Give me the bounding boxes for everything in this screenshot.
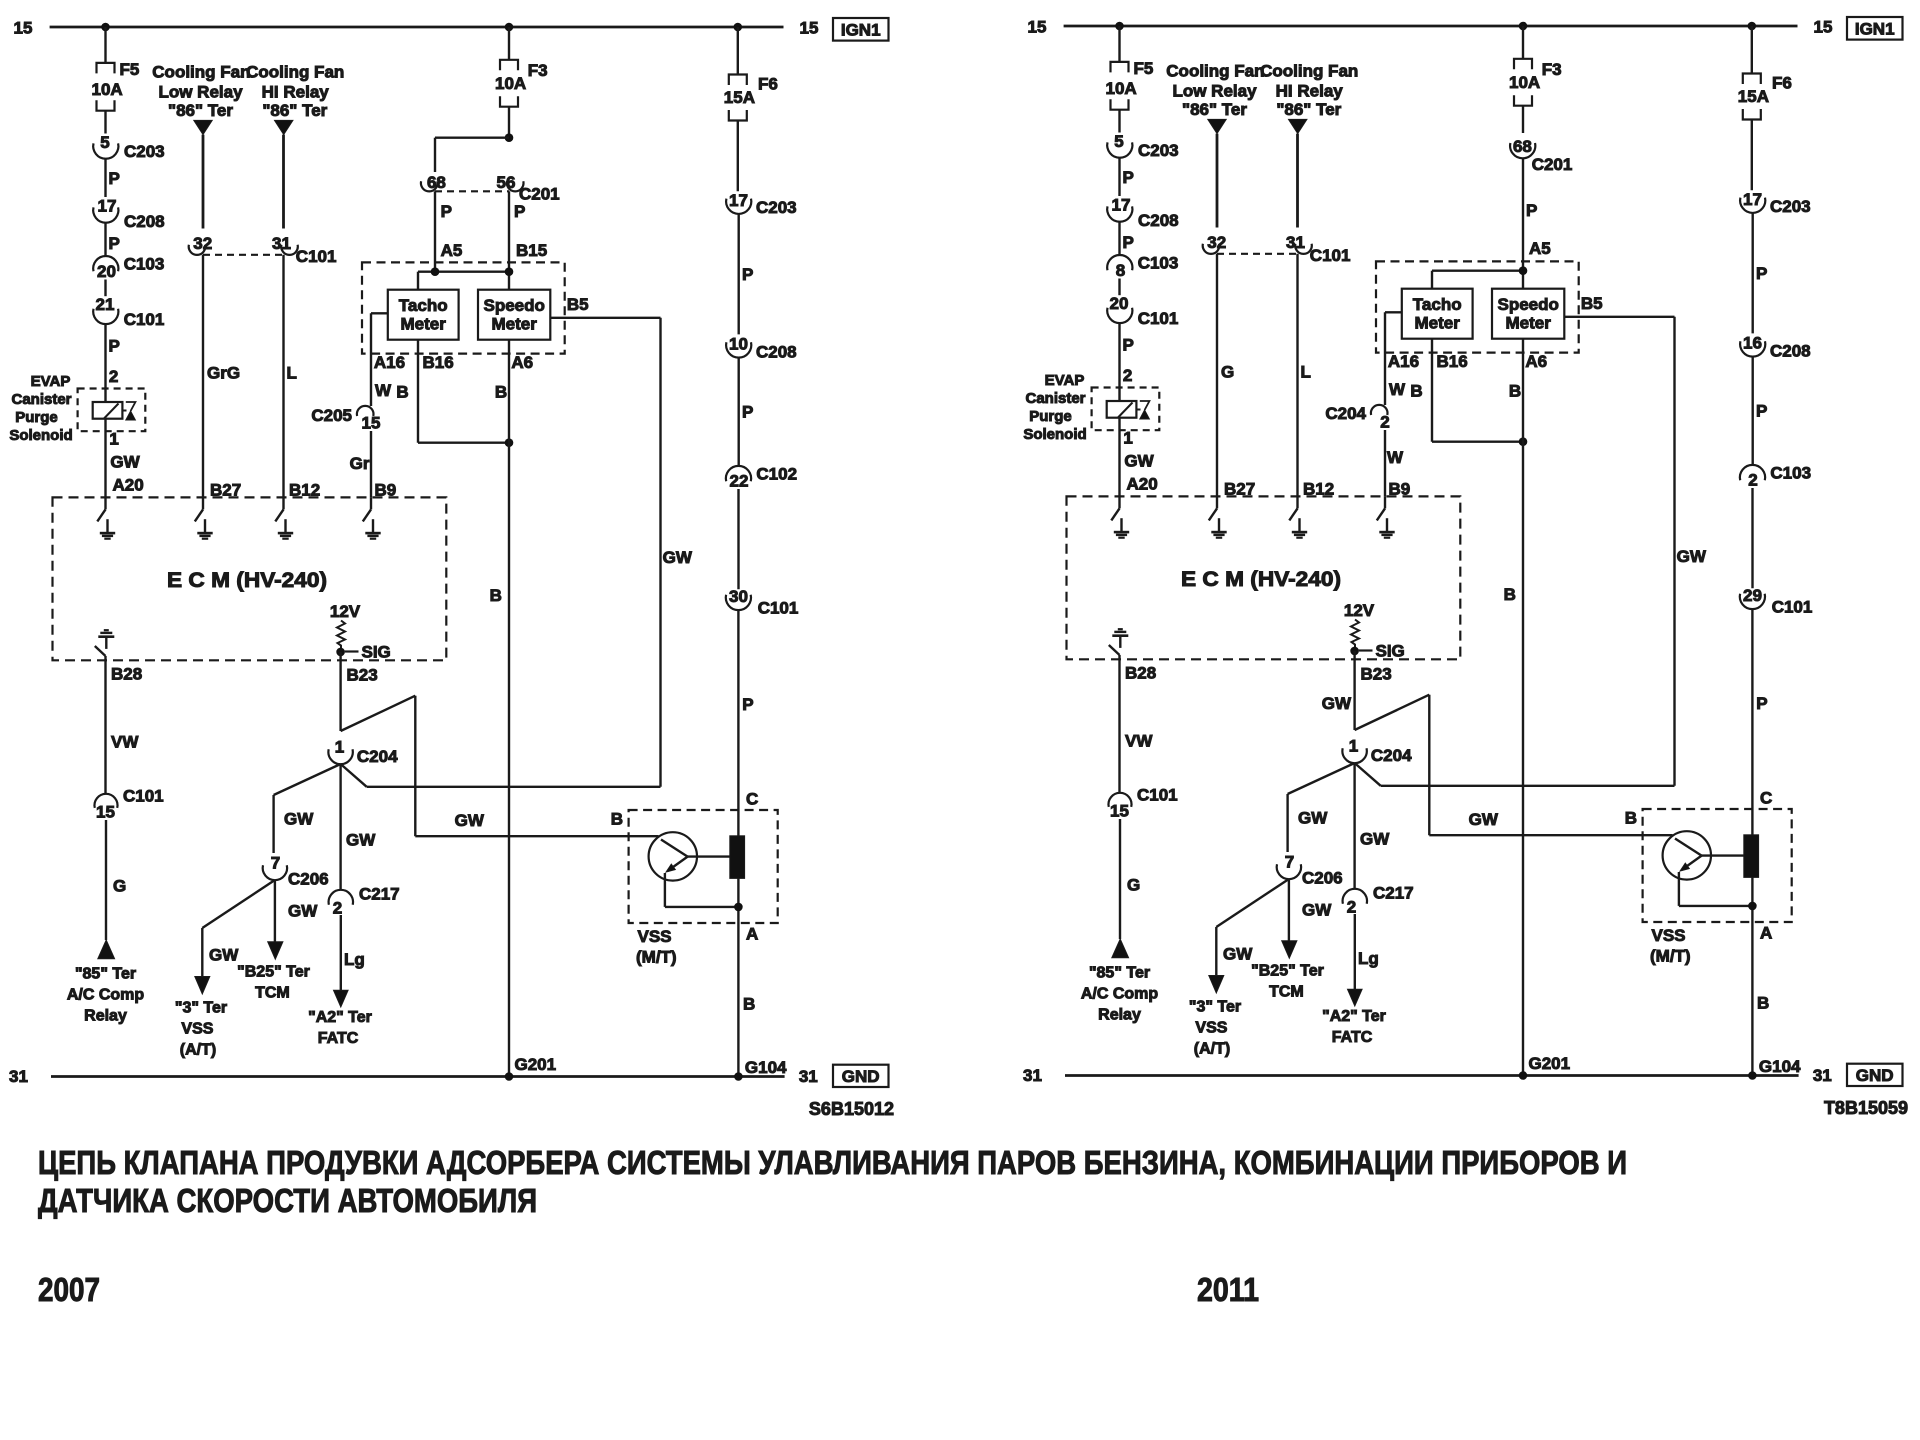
svg-text:31: 31 (9, 1067, 28, 1086)
svg-text:C101: C101 (124, 310, 165, 329)
svg-text:B: B (490, 586, 502, 605)
svg-text:F5: F5 (1134, 59, 1154, 78)
connector C203 pin 5 (2007) (93, 143, 118, 158)
wire tachometer A16 (2011) (1385, 311, 1402, 313)
ECM internal switch to B28 (2011) (1119, 636, 1121, 648)
svg-text:"B25" Ter: "B25" Ter (237, 964, 310, 981)
svg-text:2: 2 (1123, 366, 1132, 385)
svg-text:G: G (1221, 363, 1234, 382)
off-page arrow to FATC A2 (2007) (334, 990, 349, 1007)
off-page arrow to A/C compressor relay (2007) (98, 940, 115, 959)
wire Lg to FATC (2011) (1354, 914, 1356, 989)
wire bus to fuse F5 (2007) (104, 27, 106, 63)
svg-text:B: B (495, 383, 507, 402)
connector C103 pin 20 (2007) (93, 256, 118, 271)
svg-text:1: 1 (1349, 737, 1358, 756)
svg-text:B28: B28 (1125, 664, 1156, 683)
svg-text:B: B (1509, 382, 1521, 401)
wire B, tachometer B16 (2007) (417, 340, 419, 443)
svg-text:GW: GW (284, 810, 314, 829)
svg-text:2: 2 (1347, 898, 1356, 917)
svg-text:C101: C101 (758, 599, 799, 618)
wire bus to fuse F3 (2007) (508, 27, 510, 60)
wire P, C201-56 to speedometer B15 (2007) (508, 191, 510, 271)
left diagram (2007) (9, 18, 894, 1119)
svg-text:B: B (1757, 994, 1769, 1013)
svg-text:17: 17 (1743, 190, 1762, 209)
svg-text:C217: C217 (1373, 884, 1414, 903)
svg-text:B15: B15 (516, 241, 547, 260)
fuse F5 10A (2011) (1111, 62, 1129, 73)
EVAP canister purge solenoid (2007) (78, 389, 146, 432)
svg-text:"85" Ter: "85" Ter (1089, 965, 1150, 982)
wire speedometer B5 output (2007) (550, 317, 660, 319)
svg-text:Relay: Relay (1098, 1007, 1141, 1024)
svg-text:P: P (1526, 201, 1537, 220)
fuse F6 15A (2011) (1743, 74, 1761, 85)
svg-text:G201: G201 (1529, 1054, 1571, 1073)
svg-text:VW: VW (1125, 732, 1153, 751)
svg-text:15: 15 (96, 803, 115, 822)
svg-text:15: 15 (14, 19, 33, 38)
svg-text:EVAP: EVAP (31, 373, 71, 390)
svg-text:(A/T): (A/T) (1194, 1041, 1230, 1058)
instrument cluster box (2011) (1376, 261, 1579, 352)
wire F6 to C203 (2007) (737, 121, 739, 192)
svg-text:"86" Ter: "86" Ter (1276, 100, 1341, 119)
wire B5 to C204 pin 1 (2011) (1381, 785, 1675, 787)
svg-text:C208: C208 (1138, 211, 1179, 230)
ECM ground pin A20 (2011) (1118, 496, 1120, 508)
connector C208 pin 17 (2011) (1107, 206, 1132, 221)
off-page arrow to cooling fan HI relay (2011) (1289, 119, 1307, 133)
wire GW to VSS (A/T) (2007) (202, 880, 275, 928)
ECM ground pin B12 (2007) (282, 497, 284, 509)
svg-text:Meter: Meter (1506, 314, 1552, 333)
off-page arrow to A/C compressor relay (2011) (1112, 939, 1129, 958)
junction bus/F5 (2007) (101, 23, 110, 32)
speedometer (2007) (478, 290, 550, 340)
wire F6 to C203 (2011) (1751, 120, 1753, 191)
junction bus/F5 (2011) (1115, 22, 1124, 31)
svg-text:GND: GND (1856, 1066, 1894, 1085)
svg-text:12V: 12V (330, 602, 361, 621)
wire P, C203 to C208 (2011) (1118, 158, 1120, 196)
svg-text:2: 2 (333, 899, 342, 918)
svg-text:P: P (1123, 168, 1134, 187)
svg-text:"86" Ter: "86" Ter (262, 101, 327, 120)
svg-text:C203: C203 (756, 198, 797, 217)
tachometer (2011) (1402, 289, 1473, 339)
svg-text:Relay: Relay (84, 1008, 127, 1025)
wire fan HI relay to C101-31 (2007) (282, 135, 285, 229)
svg-text:B: B (396, 383, 408, 402)
svg-text:C103: C103 (1138, 254, 1179, 273)
wire W, C204 to ECM B9 (2011) (1384, 430, 1386, 496)
svg-text:32: 32 (1207, 233, 1226, 252)
svg-text:C101: C101 (1138, 309, 1179, 328)
svg-text:"A2" Ter: "A2" Ter (1322, 1008, 1386, 1025)
svg-text:GW: GW (346, 831, 376, 850)
svg-text:Low Relay: Low Relay (1172, 82, 1257, 101)
connector C203 pin 5 (2011) (1107, 142, 1132, 157)
wire tachometer A16 (2007) (371, 312, 388, 314)
svg-text:(M/T): (M/T) (1650, 947, 1691, 966)
wire ignition bus 15 (2007) (50, 26, 784, 29)
wire P, C101 to solenoid pin 2 (2007) (104, 324, 106, 402)
svg-text:B27: B27 (1224, 480, 1255, 499)
wire C103 to C101 (2007) (104, 280, 106, 297)
junction cluster feed speedo (2011) (1519, 266, 1528, 275)
svg-text:GW: GW (1677, 547, 1707, 566)
wire GW, solenoid pin 1 to ECM A20 (2011) (1118, 418, 1120, 497)
junction F3 split (2007) (505, 133, 514, 142)
speedometer (2011) (1492, 289, 1564, 339)
wire bus to fuse F6 (2011) (1751, 26, 1753, 74)
svg-text:C101: C101 (123, 787, 164, 806)
wire ECM B23 signal (2011) (1353, 651, 1355, 730)
fuse F6 15A (2007) (729, 75, 747, 86)
svg-text:P: P (441, 202, 452, 221)
off-page arrow to cooling fan HI relay (2007) (275, 120, 293, 134)
svg-text:T8B15059: T8B15059 (1824, 1098, 1908, 1118)
wire L, C101-31 to ECM B12 (2011) (1296, 254, 1298, 497)
wire G, C101-32 to ECM B27 (2011) (1216, 254, 1218, 497)
svg-text:"86" Ter: "86" Ter (1182, 100, 1247, 119)
svg-text:Cooling Fan: Cooling Fan (152, 63, 250, 82)
ECM ground pin B9 (2007) (370, 497, 372, 509)
solenoid valve symbol (2007) (126, 402, 136, 411)
svg-text:10A: 10A (495, 74, 526, 93)
svg-text:P: P (742, 265, 753, 284)
svg-text:68: 68 (1513, 137, 1532, 156)
wire fan low relay to C101-32 (2011) (1216, 134, 1219, 228)
wire GW, solenoid pin 1 to ECM A20 (2007) (104, 419, 106, 498)
VSS transistor Q (2011) (1663, 831, 1711, 879)
svg-text:31: 31 (799, 1067, 818, 1086)
wire P, C203 to C208 (2007) (738, 214, 740, 335)
svg-text:"B25" Ter: "B25" Ter (1251, 963, 1324, 980)
junction cluster feed tacho (2007) (431, 267, 440, 276)
tachometer (2007) (388, 290, 459, 340)
junction bus/F3 (2011) (1519, 22, 1528, 31)
svg-text:A/C Comp: A/C Comp (67, 987, 145, 1004)
svg-text:Speedo: Speedo (483, 296, 544, 315)
wire GW, C204 to C206 (2007) (274, 764, 341, 795)
junction cluster feed speedo (2007) (505, 267, 514, 276)
svg-text:Meter: Meter (401, 315, 447, 334)
svg-text:VSS: VSS (1195, 1020, 1227, 1037)
svg-text:TCM: TCM (255, 985, 290, 1002)
svg-text:C206: C206 (288, 870, 329, 889)
svg-text:Tacho: Tacho (1413, 295, 1462, 314)
svg-text:15A: 15A (724, 88, 755, 107)
wire Lg to FATC (2007) (340, 915, 342, 990)
wire GW, B5 riser (2007) (659, 318, 661, 787)
wire ground bus 31 (2007) (51, 1075, 785, 1078)
wire bridge to pin 68 drop (2007) (435, 136, 509, 138)
wire F3 to junction (2007) (508, 107, 510, 138)
wire VW, ECM B28 to C101-15 (2007) (104, 656, 106, 794)
wire GW to TCM (2011) (1288, 879, 1290, 941)
svg-text:A16: A16 (374, 353, 405, 372)
svg-text:B16: B16 (423, 353, 454, 372)
svg-text:P: P (1756, 694, 1767, 713)
wire G, C101-15 to A/C relay (2011) (1119, 819, 1121, 939)
svg-text:GrG: GrG (207, 364, 240, 383)
svg-text:GW: GW (1223, 945, 1253, 964)
ground tag GND (2011) (1847, 1064, 1903, 1086)
svg-text:VW: VW (111, 733, 139, 752)
svg-text:12V: 12V (1344, 601, 1375, 620)
ground G104 (2007) (734, 1072, 743, 1081)
svg-text:B12: B12 (1303, 480, 1334, 499)
wire F3 to C201 (2011) (1522, 106, 1524, 133)
svg-text:P: P (1123, 336, 1134, 355)
svg-text:P: P (1123, 233, 1134, 252)
wire P, C101 to solenoid pin 2 (2011) (1118, 323, 1120, 401)
fuse F5 10A (2007) (97, 63, 115, 74)
wire P, C201 to meters A5 (2011) (1522, 158, 1524, 271)
wire Gr, C205 to ECM B9 (2007) (370, 431, 372, 497)
off-page arrow to VSS (A/T) (2007) (195, 977, 210, 995)
svg-text:Cooling Fan: Cooling Fan (1260, 62, 1358, 81)
VSS (M/T) box (2007) (629, 810, 778, 923)
svg-text:GW: GW (1322, 694, 1352, 713)
off-page arrow to TCM B25 (2011) (1282, 941, 1297, 959)
svg-text:P: P (514, 202, 525, 221)
svg-text:VSS: VSS (638, 927, 672, 946)
ECM (HV-240) box (2011) (1067, 496, 1461, 659)
power tag IGN1 (2011) (1847, 17, 1903, 40)
ECM internal switch to B28 (2007) (105, 637, 107, 649)
svg-text:(M/T): (M/T) (636, 948, 677, 967)
svg-text:2: 2 (109, 367, 118, 386)
svg-text:A6: A6 (1525, 352, 1547, 371)
svg-text:F5: F5 (120, 60, 140, 79)
svg-text:Meter: Meter (1415, 314, 1461, 333)
svg-text:10A: 10A (1106, 79, 1137, 98)
wire B, speedometer A6 to ground G201 (2007) (508, 340, 510, 1077)
wire GW to VSS (A/T) (2011) (1216, 879, 1289, 927)
svg-text:"3" Ter: "3" Ter (175, 1000, 227, 1017)
svg-text:P: P (1756, 264, 1767, 283)
svg-text:2007: 2007 (38, 1271, 100, 1308)
svg-text:C203: C203 (1138, 141, 1179, 160)
svg-text:G104: G104 (745, 1058, 787, 1077)
svg-text:15: 15 (800, 19, 819, 38)
connector C208 pin 17 (2007) (93, 207, 118, 222)
svg-text:B5: B5 (567, 295, 589, 314)
svg-text:Gr: Gr (350, 454, 370, 473)
svg-text:C101: C101 (1310, 246, 1351, 265)
ECM ground pin B12 (2011) (1296, 496, 1298, 508)
wire ground bus 31 (2011) (1065, 1074, 1799, 1077)
svg-text:Tacho: Tacho (399, 296, 448, 315)
svg-text:22: 22 (730, 472, 749, 491)
wire P, C101 to VSS collector (2007) (737, 610, 739, 1077)
svg-text:A5: A5 (441, 241, 463, 260)
svg-text:F3: F3 (528, 61, 548, 80)
svg-text:C208: C208 (1770, 342, 1811, 361)
svg-text:C206: C206 (1302, 869, 1343, 888)
svg-text:C204: C204 (357, 747, 398, 766)
svg-text:"A2" Ter: "A2" Ter (308, 1009, 372, 1026)
junction bus/F6 (2007) (734, 23, 743, 32)
VSS transistor Q (2007) (649, 832, 697, 880)
junction B16/A6 (2011) (1519, 437, 1528, 446)
svg-text:C103: C103 (1770, 464, 1811, 483)
wire P, C101 to VSS collector (2011) (1751, 609, 1753, 1076)
svg-text:IGN1: IGN1 (1855, 20, 1895, 39)
svg-text:ЦЕПЬ КЛАПАНА ПРОДУВКИ АДСОРБЕР: ЦЕПЬ КЛАПАНА ПРОДУВКИ АДСОРБЕРА СИСТЕМЫ … (38, 1144, 1627, 1181)
solenoid valve symbol (2011) (1140, 401, 1150, 410)
svg-text:B: B (1504, 585, 1516, 604)
off-page arrow to cooling fan low relay (2007) (194, 120, 212, 134)
connector C101 pin 20 (2011) (1107, 308, 1132, 323)
svg-text:17: 17 (729, 191, 748, 210)
svg-text:5: 5 (100, 133, 109, 152)
instrument cluster box (2007) (362, 262, 565, 353)
svg-text:C208: C208 (124, 212, 165, 231)
svg-text:GW: GW (288, 902, 318, 921)
wire G, C101-15 to A/C relay (2007) (105, 820, 107, 940)
wire bus to fuse F5 (2011) (1118, 26, 1120, 62)
svg-text:FATC: FATC (318, 1030, 359, 1047)
ground tag GND (2007) (833, 1065, 889, 1087)
svg-text:G: G (113, 877, 126, 896)
svg-text:A6: A6 (511, 353, 533, 372)
svg-text:7: 7 (271, 854, 280, 873)
svg-text:16: 16 (1743, 334, 1762, 353)
junction bus/F6 (2011) (1748, 22, 1757, 31)
connector C102 pin 22 (2007) (726, 466, 751, 481)
off-page arrow to TCM B25 (2007) (268, 942, 283, 960)
svg-text:GW: GW (1124, 452, 1154, 471)
junction B16/A6 (2007) (505, 438, 514, 447)
wire P, C201-68 to tachometer A5 (2007) (434, 191, 436, 271)
wire to C101 (2011) (1751, 488, 1753, 588)
svg-text:B23: B23 (1361, 665, 1392, 684)
svg-text:C203: C203 (124, 142, 165, 161)
svg-text:B12: B12 (289, 481, 320, 500)
wire B5 to C204 pin 1 (2007) (367, 786, 661, 788)
connector C103 pin 2 (2011) (1740, 465, 1765, 480)
svg-text:TCM: TCM (1269, 984, 1304, 1001)
svg-text:GW: GW (1298, 809, 1328, 828)
svg-text:31: 31 (1023, 1066, 1042, 1085)
svg-text:F6: F6 (758, 75, 778, 94)
connector C205 pin 15 (2007) (357, 406, 374, 416)
wire B23 crossover to VSS base (2011) (1355, 695, 1430, 730)
fuse F3 10A (2011) (1514, 59, 1532, 70)
right diagram (2011) (1023, 17, 1908, 1118)
svg-text:"3" Ter: "3" Ter (1189, 999, 1241, 1016)
connector C101 mating line (2007) (203, 254, 284, 256)
svg-text:C101: C101 (1137, 786, 1178, 805)
ECM ground pin B27 (2011) (1216, 496, 1218, 508)
connector C217 pin 2 (2011) (1343, 889, 1367, 904)
wire bus to fuse F6 (2007) (737, 27, 739, 75)
svg-text:FATC: FATC (1332, 1029, 1373, 1046)
ECM ground pin B27 (2007) (202, 497, 204, 509)
svg-text:HI Relay: HI Relay (262, 83, 330, 102)
svg-text:VSS: VSS (181, 1021, 213, 1038)
svg-text:A5: A5 (1529, 239, 1551, 258)
svg-text:L: L (287, 364, 297, 383)
wire C103 to C101 (2011) (1118, 279, 1120, 296)
wire P, C203 to C208 (2011) (1751, 213, 1753, 334)
svg-text:A20: A20 (113, 476, 144, 495)
svg-text:B23: B23 (347, 666, 378, 685)
svg-text:C204: C204 (1371, 746, 1412, 765)
svg-text:C204: C204 (1325, 404, 1366, 423)
junction VSS emitter/A (2007) (734, 903, 743, 912)
svg-text:P: P (109, 337, 120, 356)
svg-text:Solenoid: Solenoid (9, 427, 72, 444)
power tag IGN1 (2007) (833, 18, 889, 41)
svg-text:P: P (109, 169, 120, 188)
svg-text:20: 20 (1110, 294, 1129, 313)
VSS sensor magnet (2007) (730, 836, 745, 879)
svg-text:1: 1 (109, 430, 118, 449)
svg-text:A16: A16 (1388, 352, 1419, 371)
svg-text:7: 7 (1285, 853, 1294, 872)
wire P, C203 to C208 (2007) (104, 159, 106, 197)
svg-text:GW: GW (1302, 901, 1332, 920)
wire to C101 (2007) (737, 489, 739, 589)
wire VSS emitter (2007) (664, 873, 666, 907)
wire fan HI relay to C101-31 (2011) (1296, 134, 1299, 228)
svg-text:B27: B27 (210, 481, 241, 500)
connector C217 pin 2 (2007) (329, 890, 353, 905)
svg-text:Cooling Fan: Cooling Fan (246, 63, 344, 82)
svg-text:P: P (109, 234, 120, 253)
svg-text:10: 10 (729, 335, 748, 354)
wire GW to TCM (2007) (274, 880, 276, 942)
wire VW, ECM B28 to C101-15 (2011) (1118, 655, 1120, 793)
wire B, tachometer B16 (2011) (1431, 339, 1433, 442)
svg-text:Purge: Purge (1029, 408, 1072, 425)
svg-text:2: 2 (1748, 471, 1757, 490)
wire P, C208 down (2011) (1751, 357, 1753, 466)
wire cluster feed (2011) (1432, 270, 1523, 272)
svg-text:15: 15 (1028, 18, 1047, 37)
wire P, C208 to C103 (2007) (104, 223, 106, 257)
svg-text:32: 32 (193, 234, 212, 253)
svg-text:P: P (742, 695, 753, 714)
svg-text:B5: B5 (1581, 294, 1603, 313)
svg-text:1: 1 (335, 738, 344, 757)
svg-text:E C M (HV-240): E C M (HV-240) (1181, 568, 1341, 591)
ground G201 (2011) (1519, 1071, 1528, 1080)
wire speedometer B5 output (2011) (1564, 316, 1674, 318)
wire B23 crossover to VSS base (2007) (341, 696, 416, 731)
svg-text:21: 21 (96, 295, 115, 314)
svg-text:VSS: VSS (1652, 926, 1686, 945)
svg-text:L: L (1301, 363, 1311, 382)
wire L, C101-31 to ECM B12 (2007) (282, 255, 284, 498)
wire GW, C204 to C206 (2011) (1288, 763, 1355, 794)
svg-text:W: W (1387, 448, 1404, 467)
svg-text:G104: G104 (1759, 1057, 1801, 1076)
svg-text:(A/T): (A/T) (180, 1042, 216, 1059)
svg-text:W: W (375, 381, 392, 400)
svg-text:GW: GW (1360, 830, 1390, 849)
wire ignition bus 15 (2011) (1064, 25, 1798, 28)
junction VSS emitter/A (2011) (1748, 902, 1757, 911)
wire B, speedometer A6 to ground G201 (2011) (1522, 339, 1524, 1076)
